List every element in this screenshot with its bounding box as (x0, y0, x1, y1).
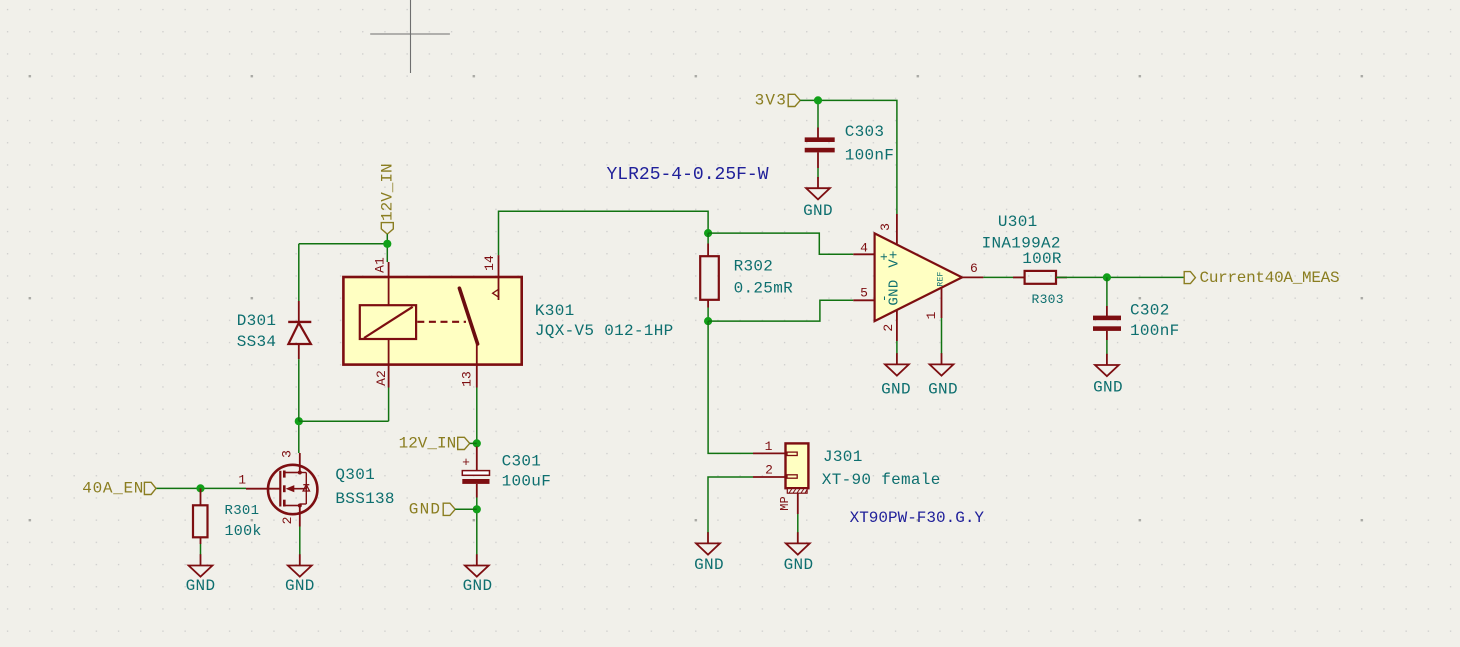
ground under U301 pin 2 (885, 353, 909, 375)
wire: R302 bottom to op-amp pin 5 (708, 300, 853, 321)
svg-text:REF: REF (937, 271, 946, 286)
wire: pin 13 down to 12V_IN junction (476, 388, 478, 445)
op-amp U301 body (875, 233, 962, 321)
svg-text:3: 3 (878, 223, 893, 231)
svg-text:6: 6 (970, 261, 978, 276)
node junction GND label (473, 505, 481, 513)
svg-text:Current40A_MEAS: Current40A_MEAS (1200, 269, 1340, 287)
svg-text:0.25mR: 0.25mR (734, 280, 794, 298)
node junction at R301 top (196, 484, 204, 492)
resistor R302 (707, 233, 709, 243)
svg-text:1: 1 (765, 439, 773, 454)
svg-text:SS34: SS34 (237, 333, 277, 351)
svg-text:13: 13 (460, 371, 475, 387)
svg-text:14: 14 (482, 255, 497, 271)
ground under C302 (1095, 354, 1119, 376)
svg-text:XT-90 female: XT-90 female (822, 471, 941, 489)
sheet origin crosshair (370, 0, 450, 73)
node junction C302 (1103, 273, 1111, 281)
J301 MP hatched pad (787, 489, 807, 494)
transistor Q301 pin 1 (gate pin line) (246, 488, 280, 490)
wire: U301 out to R303 (983, 276, 1024, 278)
J301 MP pin (797, 493, 799, 514)
svg-text:2: 2 (881, 324, 896, 332)
svg-text:GND: GND (1093, 379, 1123, 397)
U301 pin 4 (+) (853, 253, 874, 255)
relay fixed contact (493, 289, 499, 297)
wire: junction down into R301 (200, 488, 202, 505)
svg-text:GND: GND (784, 556, 814, 574)
svg-text:100nF: 100nF (1130, 322, 1180, 340)
svg-text:GND: GND (694, 556, 724, 574)
svg-text:GND: GND (887, 279, 903, 305)
svg-text:K301: K301 (535, 302, 575, 320)
wire: D301 anode down (298, 359, 300, 421)
svg-text:R302: R302 (734, 257, 774, 275)
svg-text:100k: 100k (225, 523, 262, 540)
diode D301 (288, 301, 311, 359)
svg-text:12V_IN: 12V_IN (399, 434, 457, 452)
ground under Q301 (288, 554, 312, 576)
svg-text:C302: C302 (1130, 302, 1170, 320)
svg-text:12V_IN: 12V_IN (378, 163, 396, 221)
svg-text:YLR25-4-0.25F-W: YLR25-4-0.25F-W (607, 165, 769, 185)
svg-text:3V3: 3V3 (755, 91, 787, 109)
U301 pin 6 (OUT) (962, 276, 983, 278)
wire: MP to GND (797, 514, 799, 533)
resistor R303 (1013, 276, 1025, 278)
svg-text:GND: GND (803, 202, 833, 220)
svg-text:R303: R303 (1031, 292, 1063, 307)
J301 pin 1 (753, 452, 786, 454)
node junction at A1 (383, 240, 391, 248)
Q301 pin 2 (source) (299, 513, 301, 527)
svg-text:GND: GND (463, 577, 493, 595)
node junction R302 bottom (704, 317, 712, 325)
svg-text:100nF: 100nF (845, 147, 895, 165)
ground under J301 MP (786, 532, 810, 554)
svg-text:C301: C301 (502, 452, 542, 470)
svg-text:BSS138: BSS138 (335, 490, 394, 508)
node junction R302 top (704, 229, 712, 237)
pin 13 (476, 344, 478, 388)
J301 pin 2 (753, 476, 786, 478)
J301 pin 1 socket (787, 452, 797, 455)
connector J301 body (786, 443, 809, 488)
ground under J301 pin 2 (696, 532, 720, 554)
node junction at D301 anode (295, 417, 303, 425)
wire: C302 to GND (1106, 340, 1108, 355)
wire: 12V_IN label to A1 (386, 234, 388, 262)
node junction 3V3 (814, 96, 822, 104)
label Current40A_MEAS (1184, 272, 1195, 284)
U301 pin 2 (GND) (896, 310, 898, 342)
svg-text:1: 1 (924, 311, 939, 319)
svg-text:3: 3 (280, 450, 295, 458)
J301 pin 2 socket (787, 475, 797, 478)
wire: drain up to D301/A2 junction (298, 421, 300, 453)
svg-text:100R: 100R (1022, 250, 1062, 268)
wire: R301 bottom to GND (200, 537, 202, 544)
svg-text:GND: GND (881, 381, 911, 399)
svg-text:100uF: 100uF (502, 473, 552, 491)
wire: pin 14 up and across to R302 (499, 211, 709, 255)
relay K301 body (343, 277, 521, 365)
svg-text:GND: GND (285, 577, 315, 595)
pin 14 (498, 255, 500, 300)
wire: 40A_EN to Q301 gate (156, 487, 246, 489)
relay coil (360, 305, 416, 339)
svg-text:R301: R301 (225, 503, 260, 519)
U301 pin 1 (REF) (941, 287, 943, 318)
svg-text:2: 2 (765, 463, 773, 478)
node junction 12V_IN / C301 (473, 439, 481, 447)
svg-text:2: 2 (280, 517, 295, 525)
svg-text:J301: J301 (823, 448, 863, 466)
capacitor C302 (1093, 306, 1121, 340)
wire: 3V3 to C303 and U301 V+ (800, 100, 897, 214)
wire: R303 to label (1056, 276, 1184, 278)
U301 pin 5 (-) (853, 299, 874, 301)
capacitor C303 (805, 128, 835, 169)
wire: U301 pin 2 to GND (896, 341, 898, 354)
svg-text:GND: GND (409, 500, 441, 518)
svg-text:XT90PW-F30.G.Y: XT90PW-F30.G.Y (850, 509, 985, 527)
svg-text:Q301: Q301 (335, 466, 375, 484)
svg-text:V+: V+ (887, 250, 903, 267)
relay switch blade (459, 288, 477, 344)
transistor Q301 (268, 465, 317, 514)
svg-text:C303: C303 (845, 123, 885, 141)
svg-text:A1: A1 (373, 257, 388, 273)
svg-text:MP: MP (778, 496, 792, 510)
wire: U301 pin 1 to GND (941, 318, 943, 354)
relay actuator dashed link (417, 321, 466, 323)
resistor R301 (193, 505, 208, 537)
svg-text:+: + (462, 455, 470, 470)
capacitor C301 (polarized) (462, 447, 489, 498)
svg-text:GND: GND (928, 381, 958, 399)
U301 pin 3 (V+) (896, 214, 898, 245)
ground under C301 (465, 554, 489, 576)
ground under C303 (806, 177, 830, 199)
svg-text:A2: A2 (374, 370, 389, 386)
ground under R301 (189, 554, 213, 576)
wire: J301 pin 2 to GND (708, 477, 753, 533)
svg-text:40A_EN: 40A_EN (82, 479, 144, 497)
svg-text:D301: D301 (237, 312, 277, 330)
svg-text:U301: U301 (998, 213, 1038, 231)
svg-text:4: 4 (860, 241, 868, 256)
wire: D301 cathode up and right to A1 junction (298, 244, 300, 301)
svg-text:JQX-V5 012-1HP: JQX-V5 012-1HP (535, 322, 674, 340)
ground under U301 pin 1 (930, 353, 954, 375)
Q301 pin 3 (drain) (299, 453, 301, 466)
svg-text:GND: GND (186, 577, 216, 595)
wire: C301 bottom to GND (476, 498, 478, 556)
wire: R302 top to op-amp pin 4 (708, 233, 853, 254)
svg-text:5: 5 (860, 286, 868, 301)
pin A2 (388, 339, 390, 388)
pin A1 (388, 262, 390, 305)
wire: junction to A2 (299, 420, 389, 422)
wire: R302 bottom down to J301 pin 1 (708, 321, 753, 453)
svg-text:1: 1 (238, 473, 246, 488)
wire: Q301 source to GND (299, 527, 301, 556)
wire: junction down to C302 (1106, 277, 1108, 306)
wire: C303 to GND (817, 168, 819, 179)
